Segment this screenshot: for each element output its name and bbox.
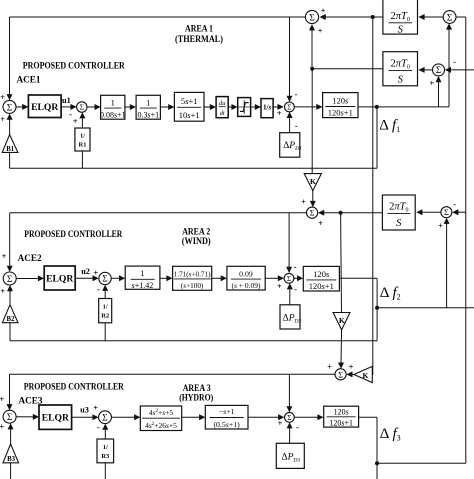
- svg-text:Σ: Σ: [310, 209, 315, 218]
- wire B1 to ACE1 sum: [9, 120, 11, 136]
- svg-text:1/: 1/: [103, 304, 108, 311]
- block tie line 2piT0/S upper: [383, 0, 418, 34]
- gain 1/R2 block: [99, 299, 112, 323]
- gain 1/R1 block: [75, 128, 90, 151]
- load disturbance block dP_D2: [280, 305, 300, 329]
- svg-text:+: +: [301, 197, 306, 207]
- wire tie block2 output to junction: [312, 68, 383, 70]
- svg-text:+: +: [327, 361, 332, 371]
- svg-text:+: +: [277, 108, 282, 118]
- svg-text:dt: dt: [220, 110, 225, 117]
- svg-text:+: +: [73, 116, 78, 126]
- node junction dot on tie line to area3: [371, 15, 375, 19]
- load disturbance block dP_D1: [280, 133, 300, 158]
- svg-text:Σ: Σ: [447, 13, 453, 23]
- svg-text:120s: 120s: [313, 269, 330, 279]
- wire governor to block2: [125, 106, 131, 108]
- svg-text:+: +: [0, 422, 4, 432]
- summing junction tie sum area3: [335, 369, 346, 380]
- wire df2 corner down: [376, 278, 378, 308]
- summing junction ACE1: [3, 100, 16, 113]
- svg-text:AREA 3: AREA 3: [183, 383, 211, 393]
- node junction dot tie12 output: [310, 67, 314, 71]
- svg-text:ELQR: ELQR: [31, 102, 59, 113]
- wire tie branch down into swing sum1: [289, 17, 291, 96]
- svg-text:1: 1: [111, 97, 115, 107]
- block reheat (5s+1)/(10s+1): [174, 92, 204, 121]
- block governor 1/(0.08s+1): [101, 95, 125, 119]
- svg-text:K: K: [310, 177, 316, 186]
- svg-text:PROPOSED CONTROLLER: PROPOSED CONTROLLER: [23, 60, 125, 70]
- wire B3 down to bottom edge: [10, 463, 12, 479]
- wire power system2 output: [339, 277, 377, 279]
- svg-text:s+1.42: s+1.42: [132, 281, 154, 290]
- summing junction swing sum1: [285, 102, 295, 112]
- wire ELQR2 to control sum2: [75, 277, 93, 279]
- summing junction control sum2: [99, 272, 111, 284]
- gain B2 triangle: [2, 305, 18, 323]
- wire left drop into ACE3 sum: [9, 374, 11, 404]
- wire df3 riser vertical right edge: [465, 17, 467, 463]
- svg-text:10s+1: 10s+1: [179, 110, 200, 120]
- wire swing sum3 to power system block3: [294, 416, 318, 418]
- svg-text:Σ: Σ: [287, 103, 291, 111]
- gain B3 triangle: [3, 444, 19, 463]
- svg-text:1.71(s+0.71): 1.71(s+0.71): [174, 270, 211, 278]
- wire control sum1 to governor block: [87, 106, 96, 108]
- svg-text:-: -: [294, 89, 297, 99]
- controller ELQR1 block: [28, 95, 61, 118]
- block tie line area2 2piT0/S: [382, 195, 415, 230]
- svg-text:4s2+26s+5: 4s2+26s+5: [145, 421, 177, 430]
- svg-text:B2: B2: [7, 316, 16, 323]
- block integrator 1/s: [261, 99, 273, 118]
- svg-text:+: +: [0, 394, 4, 404]
- svg-text:B1: B1: [6, 146, 15, 153]
- svg-text:0.09: 0.09: [239, 269, 253, 278]
- wire control sum3 to hydro block1: [111, 416, 135, 418]
- summing junction ACE2: [3, 272, 16, 285]
- wire ACE1 sum to ELQR1: [16, 106, 24, 108]
- svg-text:+: +: [2, 251, 7, 261]
- wire dP_D3 up into swing sum3: [289, 428, 291, 443]
- svg-text:+: +: [0, 114, 5, 124]
- svg-text:−s+1: −s+1: [219, 407, 235, 416]
- svg-text:1: 1: [140, 268, 144, 278]
- wire df3 tap into area2 right sum: [456, 211, 466, 213]
- wire junction down to K gain area2: [311, 69, 313, 174]
- svg-text:1/: 1/: [103, 444, 108, 451]
- svg-text:K: K: [339, 316, 345, 325]
- svg-text:S: S: [398, 24, 404, 35]
- svg-text:-: -: [295, 120, 298, 130]
- wire B2 down to feedback rail2: [9, 323, 11, 341]
- svg-text:Σ: Σ: [7, 413, 13, 423]
- svg-text:ACE3: ACE3: [19, 396, 43, 406]
- wire integrator to swing sum1: [273, 106, 278, 108]
- svg-text:+: +: [318, 26, 323, 36]
- wire TR1 right to df3 riser: [456, 16, 466, 18]
- wire tie branch down into swing sum2: [288, 213, 290, 268]
- svg-text:+: +: [438, 220, 443, 230]
- svg-text:R1: R1: [79, 142, 87, 149]
- wire du/dt to saturation: [228, 106, 232, 108]
- wire df3 corner down: [376, 417, 378, 463]
- svg-text:+: +: [277, 418, 282, 428]
- wire left drop into ACE2 sum: [9, 213, 11, 267]
- svg-text:PROPOSED CONTROLLER: PROPOSED CONTROLLER: [24, 229, 122, 239]
- svg-text:-: -: [453, 199, 456, 209]
- controller ELQR2 block: [44, 266, 75, 290]
- svg-text:ACE2: ACE2: [18, 253, 42, 263]
- wire df3 rail to right riser: [377, 462, 466, 464]
- wire 1/R3 to control sum3: [104, 429, 106, 439]
- svg-text:+: +: [321, 5, 326, 15]
- svg-text:120s+1: 120s+1: [309, 281, 334, 291]
- svg-text:R3: R3: [101, 453, 110, 460]
- svg-text:-: -: [97, 422, 100, 432]
- svg-text:Σ: Σ: [287, 275, 291, 283]
- svg-text:Σ: Σ: [444, 208, 449, 217]
- svg-text:+: +: [318, 218, 323, 228]
- block hydro (-s+1)/(0.5s+1): [205, 405, 248, 429]
- wire dP_D1 up into swing sum1: [289, 118, 291, 133]
- svg-text:Σ: Σ: [7, 103, 13, 113]
- svg-text:(WIND): (WIND): [182, 236, 211, 246]
- wire swing sum1 to power system block1: [294, 106, 317, 108]
- block wind 0.09/(s+0.09): [227, 266, 265, 290]
- wire area2 tie block output into tie sum area2: [322, 212, 383, 214]
- wire ELQR1 to control sum1: [61, 106, 71, 108]
- wire swing sum2 to power system block2: [294, 277, 298, 279]
- gain B1 triangle: [2, 135, 18, 153]
- block wind 1.71(s+0.71)/(s+100): [173, 266, 212, 290]
- svg-text:-: -: [97, 284, 100, 294]
- svg-text:(s+100): (s+100): [181, 282, 204, 290]
- svg-text:5s+1: 5s+1: [181, 96, 198, 106]
- wire saturation to integrator: [251, 106, 256, 108]
- summing junction tie sum area2: [307, 207, 318, 218]
- wire hydro1 to hydro2: [182, 416, 201, 418]
- summing junction tie sum area1: [305, 10, 318, 23]
- block wind 1/(s+1.42): [125, 266, 160, 289]
- wire 1/R1 to control sum1: [81, 118, 83, 128]
- block 1/(0.3s+1): [136, 95, 160, 119]
- svg-text:Σ: Σ: [436, 65, 441, 75]
- summing junction area2 right sum: [441, 207, 452, 218]
- summing junction TR2: [433, 64, 445, 76]
- svg-text:u3: u3: [80, 406, 89, 415]
- wire ACE1 top rail y=17: [10, 16, 306, 18]
- block du/dt rate: [216, 97, 228, 118]
- wire tie block1 output into tie sum area1: [324, 16, 383, 18]
- wire wind3 to swing sum2: [265, 277, 279, 279]
- svg-text:(HYDRO): (HYDRO): [179, 393, 213, 403]
- node junction dot df2: [375, 306, 379, 310]
- wire ACE2 sum to ELQR2: [16, 278, 39, 280]
- svg-text:u1: u1: [62, 96, 71, 105]
- wire ACE2 top rail: [10, 212, 307, 214]
- wire K to tie sum area2: [312, 191, 314, 202]
- wire area1 tie down to K area3: [372, 17, 374, 375]
- svg-text:ELQR: ELQR: [42, 413, 70, 424]
- load disturbance block dP_D3: [276, 443, 304, 468]
- svg-text:1: 1: [146, 97, 150, 107]
- wire 1/R2 down to feedback rail2: [104, 323, 106, 341]
- svg-text:1/: 1/: [80, 133, 85, 140]
- svg-text:120s+1: 120s+1: [329, 419, 353, 428]
- node junction dot df3: [375, 461, 379, 465]
- svg-text:-: -: [294, 262, 297, 272]
- wire B2 to ACE2 sum: [9, 291, 11, 305]
- wire df3 down to bottom edge: [376, 463, 378, 479]
- block hydro (4s2+s+5)/(4s2+26s+5): [140, 406, 181, 431]
- wire K area2-3 down to tie sum area3: [340, 330, 343, 363]
- summing junction ACE3: [3, 410, 16, 423]
- wire wind2 to wind3: [212, 277, 222, 279]
- svg-text:PROPOSED CONTROLLER: PROPOSED CONTROLLER: [24, 381, 124, 391]
- wire vertical into tie sum area1 from below: [311, 30, 313, 69]
- wire area2 frequency feedback rail: [10, 340, 377, 342]
- svg-text:1/s: 1/s: [263, 104, 271, 112]
- wire tie branch down into swing sum3: [288, 374, 290, 407]
- svg-text:+: +: [277, 281, 282, 291]
- wire area2 right sum output into tie block area2: [420, 211, 441, 213]
- wire wind1 to wind2: [160, 277, 168, 279]
- wire dP_D2 up into swing sum2: [289, 289, 291, 305]
- summing junction swing sum3: [285, 412, 295, 422]
- svg-text:ELQR: ELQR: [46, 274, 74, 285]
- wire junction down to K gain area2-3: [340, 213, 343, 313]
- wire turbine to du/dt: [204, 106, 210, 108]
- svg-text:u2: u2: [81, 267, 90, 276]
- gain 1/R3 block: [97, 439, 114, 463]
- wire TR2 output into tie block2: [423, 69, 433, 71]
- svg-text:0.3s+1: 0.3s+1: [137, 110, 159, 119]
- wire power system1 output to df1 rail: [358, 106, 449, 108]
- svg-text:Σ: Σ: [309, 13, 315, 23]
- block power system2 120s/(120s+1): [303, 266, 339, 291]
- wire area1 frequency feedback rail: [10, 167, 377, 169]
- svg-text:+: +: [0, 92, 5, 102]
- svg-text:Σ: Σ: [102, 414, 107, 424]
- svg-text:S: S: [398, 75, 404, 86]
- svg-text:Σ: Σ: [287, 414, 291, 422]
- svg-text:-: -: [296, 422, 299, 432]
- wire hydro2 to swing sum3: [248, 416, 279, 418]
- svg-text:S: S: [396, 218, 402, 229]
- svg-text:120s+1: 120s+1: [328, 108, 353, 118]
- wire 1/R3 down to bottom edge: [104, 463, 106, 479]
- block power system 120s/(120s+1): [323, 93, 358, 118]
- node junction dot tie to area3: [339, 211, 343, 215]
- wire control sum2 to wind block1: [111, 277, 120, 279]
- wire df2 from right edge into TR2: [450, 69, 474, 71]
- summing junction control sum3: [99, 411, 112, 424]
- svg-text:-: -: [69, 109, 72, 119]
- wire B1 down to feedback rail: [9, 152, 11, 168]
- wire ACE3 sum to ELQR3: [16, 416, 34, 418]
- svg-text:4s2+s+5: 4s2+s+5: [149, 408, 174, 417]
- controller ELQR3 block: [39, 405, 72, 429]
- svg-text:+: +: [93, 268, 98, 278]
- svg-text:(THERMAL): (THERMAL): [175, 34, 223, 44]
- wire 1/R2 to control sum2: [104, 290, 106, 298]
- wire df1 up to tie sum TR2: [438, 82, 440, 107]
- svg-text:Σ: Σ: [338, 370, 343, 379]
- wire df1 down branch to feedback rail: [376, 107, 378, 168]
- svg-text:du: du: [219, 100, 225, 107]
- wire K area3 into tie sum area3: [352, 374, 354, 376]
- svg-text:Σ: Σ: [80, 103, 85, 112]
- summing junction swing sum2: [284, 273, 294, 283]
- summing junction control sum1: [77, 102, 87, 112]
- svg-text:R2: R2: [101, 313, 109, 320]
- wire ACE3 top rail: [10, 373, 336, 375]
- block tie line 2piT0/S lower: [383, 52, 418, 86]
- svg-text:K: K: [363, 371, 369, 380]
- svg-text:+: +: [349, 361, 354, 371]
- svg-text:Σ: Σ: [7, 275, 13, 285]
- node junction dot df1: [375, 105, 379, 109]
- block saturation limiter: [238, 98, 251, 117]
- svg-text:120s: 120s: [332, 96, 349, 106]
- summing junction TR1 top right: [443, 11, 456, 24]
- wire TR1 output into tie block1: [423, 16, 443, 18]
- svg-text:-: -: [294, 284, 297, 294]
- block reheat to turbine wire: [160, 106, 169, 108]
- gain K triangle area1-area3 pointing left: [354, 366, 372, 382]
- wire power system3 output: [359, 416, 377, 418]
- svg-text:(0.5s+1): (0.5s+1): [213, 420, 240, 429]
- svg-text:120s: 120s: [334, 407, 349, 416]
- svg-text:+: +: [93, 403, 98, 413]
- svg-text:ACE1: ACE1: [17, 75, 41, 85]
- gain K triangle area2-area3: [333, 313, 350, 330]
- svg-text:AREA 1: AREA 1: [185, 24, 213, 34]
- wire df1 up to tie sum TR1: [448, 29, 450, 107]
- svg-text:-: -: [453, 57, 456, 67]
- svg-text:B3: B3: [7, 456, 16, 463]
- wire 1/R1 down to feedback rail: [81, 151, 83, 168]
- svg-text:0.08s+1: 0.08s+1: [100, 110, 126, 119]
- svg-text:+: +: [0, 286, 5, 296]
- svg-text:+: +: [429, 78, 434, 88]
- wire df2 rail to right edge: [377, 307, 474, 309]
- svg-text:Σ: Σ: [102, 274, 107, 284]
- gain K triangle area1-area2: [304, 174, 321, 191]
- wire ELQR3 to control sum3: [72, 416, 94, 418]
- svg-text:(s + 0.09): (s + 0.09): [231, 281, 261, 290]
- block power system3 120s/(120s+1): [324, 406, 359, 427]
- svg-text:AREA 2: AREA 2: [182, 226, 210, 236]
- wire df2 down branch to feedback rail2: [376, 308, 378, 341]
- wire B3 to ACE3 sum: [10, 429, 12, 445]
- wire left drop into ACE1 sum: [9, 17, 11, 95]
- wire df2 up into area2 right sum: [446, 223, 448, 308]
